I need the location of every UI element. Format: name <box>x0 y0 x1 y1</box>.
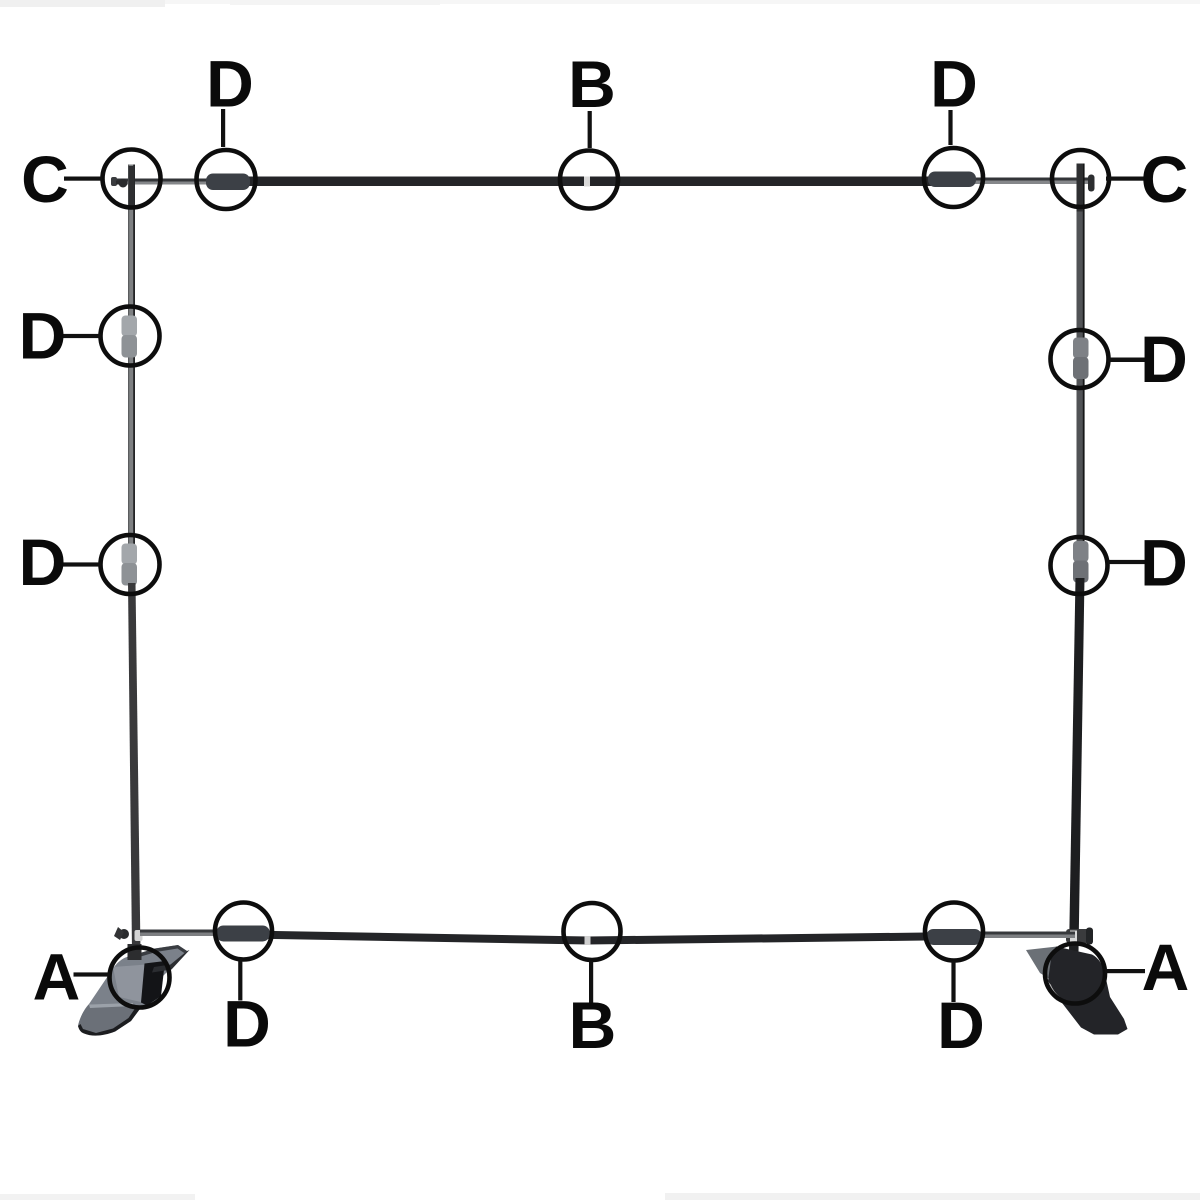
right foot wing <box>1026 947 1057 982</box>
svg-text:D: D <box>937 988 985 1062</box>
leader line B top <box>588 111 592 148</box>
svg-text:D: D <box>19 299 67 373</box>
left pole lower section <box>128 583 141 952</box>
leader line D bottom right <box>951 961 955 1002</box>
right foot blade <box>1048 947 1128 1035</box>
callout circle D top right <box>924 148 983 207</box>
left foot bottom outline <box>78 1007 140 1036</box>
bottom crossbar ferrule D left <box>216 926 270 942</box>
leader line D top left <box>221 109 225 147</box>
bottom crossbar joint B highlight <box>585 936 591 945</box>
callout circle B bottom <box>564 903 621 960</box>
svg-text:A: A <box>1142 930 1190 1004</box>
svg-text:D: D <box>223 987 271 1061</box>
svg-text:B: B <box>569 988 617 1062</box>
svg-text:A: A <box>33 940 81 1014</box>
left foot wing outline <box>127 945 187 960</box>
svg-text:D: D <box>19 525 67 599</box>
leader line C left <box>64 177 102 181</box>
leader line D right lower <box>1108 560 1146 564</box>
leader line D right upper <box>1108 358 1146 363</box>
bottom crossbar main tube <box>244 931 926 945</box>
callout circle D right side upper <box>1051 330 1109 388</box>
leader line D top right <box>948 110 952 145</box>
callout circle A left foot <box>110 948 170 1008</box>
right foot socket highlight <box>1047 984 1061 1001</box>
left foot bevel ridge highlight <box>89 1003 134 1008</box>
callout circle C left corner <box>103 150 161 208</box>
left pole upper section <box>128 165 135 571</box>
callout circle B top <box>560 151 618 209</box>
svg-text:C: C <box>1141 142 1189 216</box>
top crossbar joint B highlight <box>584 177 590 187</box>
left pole ferrule D lower <box>122 544 138 586</box>
top crossbar ferrule D left <box>206 174 250 191</box>
callout circle C right corner <box>1052 150 1109 207</box>
top crossbar ferrule D right <box>928 172 976 188</box>
callout circle D bottom left <box>215 903 272 960</box>
svg-text:C: C <box>21 142 69 216</box>
top crossbar thin right segment <box>970 178 1090 185</box>
callout circle D left side upper <box>101 307 160 366</box>
leader line A left <box>74 972 110 976</box>
right pole ferrule D lower <box>1073 541 1089 583</box>
callout circle A right foot <box>1045 944 1105 1004</box>
leader line C right <box>1106 177 1144 181</box>
right pole ferrule D upper <box>1073 338 1089 380</box>
right pole bottom bracket <box>1066 928 1093 945</box>
callout circle D top left <box>197 150 256 209</box>
bottom crossbar thin left segment <box>140 930 220 937</box>
left pole ferrule D upper <box>122 316 138 358</box>
bottom crossbar ferrule D right <box>926 929 982 945</box>
bottom crossbar thin right segment <box>980 932 1075 939</box>
left foot bright face <box>113 965 146 1003</box>
left pole top screw <box>116 179 128 188</box>
right pole upper section <box>1077 164 1085 570</box>
callout circle D bottom right <box>925 903 983 961</box>
leader line B bottom <box>589 961 593 1004</box>
svg-text:D: D <box>206 47 254 121</box>
left foot shadow wedge <box>141 961 165 1006</box>
svg-text:D: D <box>1140 526 1188 600</box>
left foot front bevel <box>78 1003 140 1036</box>
left pole bottom wingnut <box>114 927 143 941</box>
svg-text:D: D <box>1140 322 1188 396</box>
top crossbar right end screw <box>1088 175 1095 192</box>
callout circle D left side lower <box>101 535 160 594</box>
left foot wing underside <box>152 950 190 973</box>
leader line D left lower <box>60 562 101 566</box>
right pole lower section <box>1069 578 1085 952</box>
leader line D left upper <box>60 334 101 338</box>
svg-text:D: D <box>930 47 978 121</box>
bottom edge artifact <box>0 1193 1200 1200</box>
top crossbar thin left segment <box>111 177 210 186</box>
left foot socket <box>128 944 142 960</box>
top crossbar main tube <box>240 177 932 187</box>
top edge artifact <box>0 0 1200 7</box>
left foot plate top face <box>78 945 187 1036</box>
callout circle D right side lower <box>1051 537 1108 594</box>
leader line A right <box>1105 969 1145 973</box>
svg-text:B: B <box>568 47 616 121</box>
leader line D bottom left <box>238 960 242 1001</box>
